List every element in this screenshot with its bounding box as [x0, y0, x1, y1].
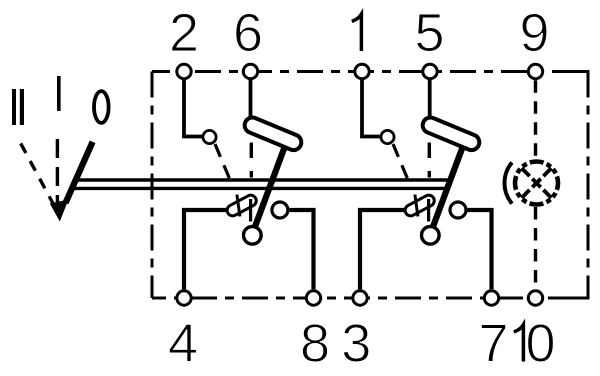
- svg-text:6: 6: [233, 3, 263, 63]
- svg-text:5: 5: [414, 3, 444, 63]
- svg-text:8: 8: [300, 314, 330, 374]
- svg-text:3: 3: [341, 314, 371, 374]
- svg-text:7: 7: [478, 314, 508, 374]
- svg-text:4: 4: [168, 314, 198, 374]
- svg-text:9: 9: [519, 3, 549, 63]
- svg-text:2: 2: [169, 3, 199, 63]
- svg-text:0: 0: [525, 314, 555, 374]
